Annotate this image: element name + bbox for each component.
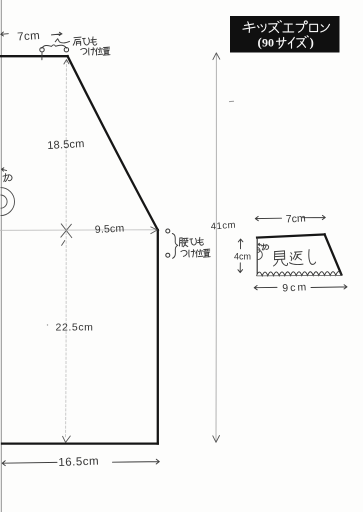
title glyph ロ — [310, 24, 318, 31]
facing 4cm text — [234, 252, 251, 262]
svg-text:16.5cm: 16.5cm — [58, 456, 99, 469]
label 置 (shoulder) — [103, 47, 110, 55]
16.5cm dimension left arrow — [2, 461, 57, 466]
title glyph ズ small — [297, 36, 309, 48]
41cm bottom arrowhead — [213, 436, 220, 443]
label つ (waist) — [181, 250, 187, 256]
label し — [309, 250, 316, 265]
title text (90 — [258, 35, 275, 50]
title glyph ズ — [269, 21, 282, 33]
page edge line — [0, 0, 2, 512]
label 腰 (waist) — [180, 238, 189, 247]
apron right edge — [157, 230, 159, 444]
facing 7cm text — [286, 212, 307, 225]
label 位 (shoulder) — [96, 48, 103, 56]
facing 7cm left arrow — [255, 216, 281, 220]
facing 9cm text — [282, 281, 308, 294]
facing bottom baseline — [257, 274, 342, 277]
svg-text:9.5cm: 9.5cm — [95, 222, 125, 236]
16.5cm dimension right arrow — [113, 459, 160, 464]
arrow over brace — [52, 32, 63, 35]
title glyph イ — [288, 37, 294, 48]
facing 7cm right arrow — [303, 215, 326, 219]
shoulder strap circle left — [40, 48, 44, 52]
svg-text:7cm: 7cm — [17, 30, 41, 44]
label ひ (shoulder) — [83, 38, 90, 45]
label 返 — [290, 252, 304, 265]
title glyph エ — [283, 24, 294, 32]
label も (waist) — [197, 237, 203, 245]
center line bottom arrowhead — [63, 436, 71, 442]
facing 4cm up arrow — [238, 239, 243, 249]
apron top edge — [0, 55, 68, 57]
fold mark arrow — [2, 168, 7, 171]
facing わ — [262, 244, 269, 250]
title text ) — [310, 35, 314, 50]
facing left edge — [256, 238, 258, 274]
41cm text — [210, 220, 236, 233]
shoulder brace — [42, 45, 67, 49]
svg-text:9cm: 9cm — [282, 281, 308, 294]
label け (waist) — [189, 250, 195, 257]
apron bottom edge — [2, 442, 158, 444]
label 置 (waist) — [204, 249, 211, 257]
label 位 (waist) — [196, 250, 203, 258]
title glyph プ — [296, 21, 307, 32]
title glyph サ — [277, 37, 287, 48]
facing top edge — [257, 234, 325, 237]
text 22.5cm — [56, 322, 94, 334]
label け (shoulder) — [89, 48, 95, 55]
9.5cm right arrowhead — [151, 227, 157, 234]
title glyph キ — [243, 22, 255, 33]
text 18.5cm — [47, 138, 85, 152]
facing right edge — [325, 234, 342, 274]
16.5cm text — [58, 456, 99, 469]
svg-text:7cm: 7cm — [286, 212, 307, 225]
stray dot near 22.5cm — [47, 324, 48, 325]
facing zigzag bottom — [257, 272, 342, 276]
facing fold arrow — [258, 243, 261, 245]
label 見 — [274, 251, 288, 266]
waist strap circle upper — [166, 229, 170, 233]
stray mark — [229, 100, 234, 102]
7cm left arrow — [1, 32, 9, 36]
waist brace — [172, 234, 178, 259]
fold mark outer arc — [1, 188, 15, 216]
fold mark inner arc — [1, 195, 8, 208]
svg-text:): ) — [310, 35, 314, 50]
svg-text:90: 90 — [262, 36, 274, 50]
label つ (shoulder) — [81, 48, 87, 54]
facing 9cm right arrow — [311, 285, 347, 289]
shoulder strap circle right — [64, 48, 68, 52]
title glyph ッ — [258, 24, 266, 32]
svg-text:41cm: 41cm — [210, 220, 236, 233]
41cm dimension line — [215, 54, 217, 442]
facing 4cm down arrow — [238, 263, 243, 273]
facing 9cm left arrow — [254, 286, 277, 290]
shoulder strap tick — [41, 53, 43, 60]
title box — [230, 16, 340, 53]
leader to shoulder label — [55, 39, 69, 43]
waist strap circle lower — [166, 253, 170, 257]
svg-text:22.5cm: 22.5cm — [56, 322, 94, 334]
fold mark わ — [3, 174, 12, 182]
label 肩 (shoulder) — [73, 37, 81, 45]
label も (shoulder) — [91, 37, 97, 45]
label ひ (waist) — [190, 238, 197, 245]
41cm top arrowhead — [213, 53, 220, 60]
apron neckline diagonal — [68, 56, 158, 230]
svg-text:4cm: 4cm — [234, 252, 251, 262]
facing fold arc — [257, 248, 262, 260]
title glyph ン — [321, 24, 330, 32]
7cm text — [17, 30, 41, 44]
center line top arrowhead — [64, 60, 69, 64]
center line cross mark — [61, 224, 72, 246]
text 9.5cm — [95, 222, 125, 236]
center fold dimension line — [65, 60, 68, 438]
9.5cm dimension line — [0, 229, 156, 232]
svg-text:18.5cm: 18.5cm — [47, 138, 85, 152]
